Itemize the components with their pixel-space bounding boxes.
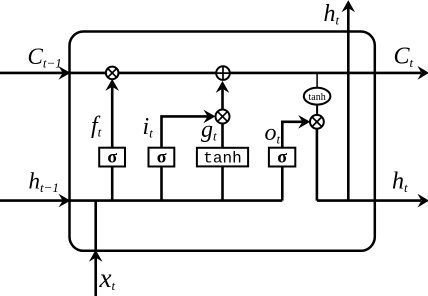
svg-text:xt: xt [99,263,116,293]
svg-text:ht: ht [324,1,340,28]
svg-text:tanh: tanh [308,92,325,103]
svg-text:Ct−1: Ct−1 [28,44,62,71]
svg-text:ot: ot [265,120,281,147]
svg-text:σ: σ [157,147,167,167]
svg-text:gt: gt [201,117,217,144]
svg-text:σ: σ [277,147,287,167]
svg-text:σ: σ [107,147,117,167]
svg-text:ht: ht [392,169,408,196]
svg-text:it: it [143,114,154,141]
svg-text:ft: ft [91,113,102,140]
svg-text:ht−1: ht−1 [29,169,59,196]
svg-text:Ct: Ct [394,44,414,71]
svg-text:tanh: tanh [203,150,241,168]
